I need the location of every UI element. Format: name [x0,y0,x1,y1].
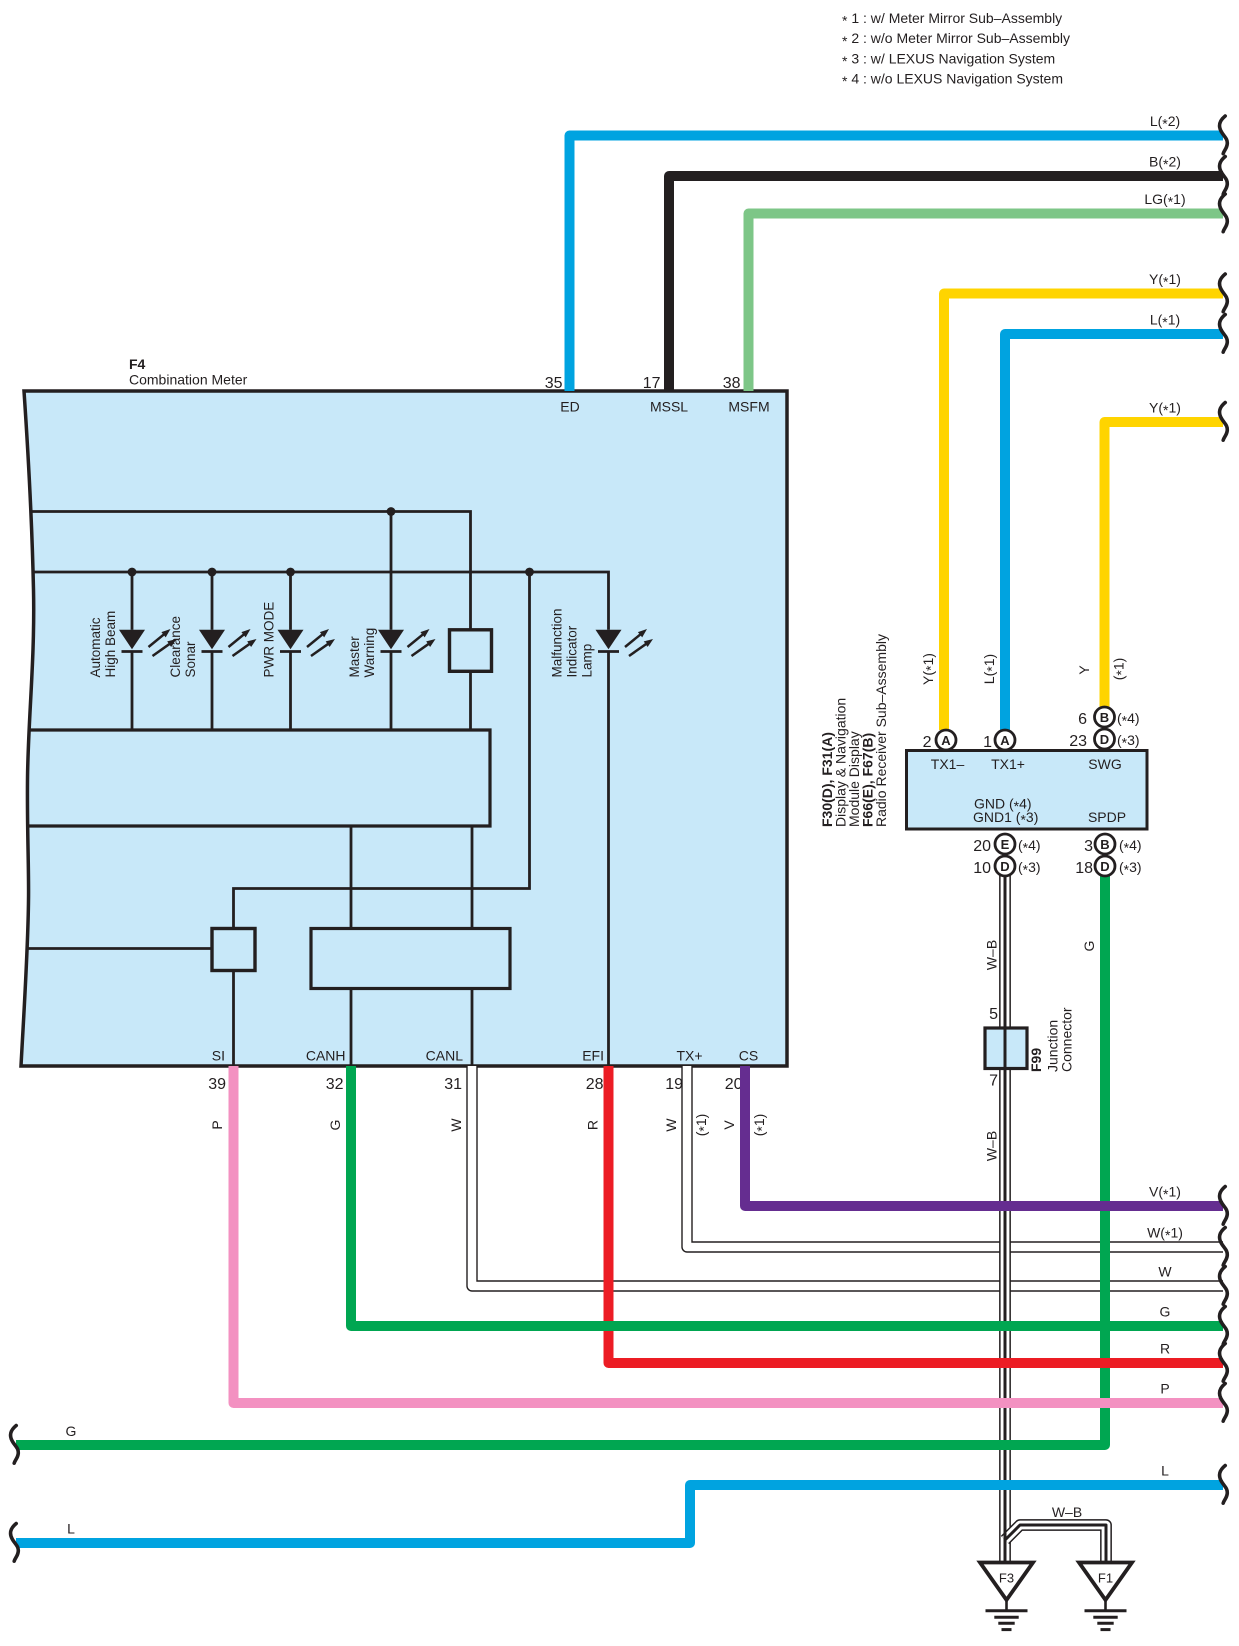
svg-text:W: W [663,1118,679,1132]
svg-text:* 2 : w/o Meter Mirror Sub–Ass: * 2 : w/o Meter Mirror Sub–Assembly [842,30,1070,49]
svg-text:(*3): (*3) [1018,859,1041,878]
svg-text:(*3): (*3) [1119,859,1142,878]
svg-text:* 3 : w/ LEXUS Navigation Syst: * 3 : w/ LEXUS Navigation System [842,50,1055,69]
svg-text:Y(*1): Y(*1) [1149,271,1181,290]
svg-text:TX+: TX+ [676,1048,702,1064]
svg-text:38: 38 [723,375,741,392]
svg-text:Indicator: Indicator [565,625,580,677]
svg-text:3: 3 [1084,838,1093,855]
svg-text:7: 7 [989,1073,998,1090]
svg-text:(*1): (*1) [693,1114,712,1137]
svg-text:Radio Receiver Sub–Assembly: Radio Receiver Sub–Assembly [873,634,889,827]
svg-text:V: V [721,1120,737,1130]
svg-text:CS: CS [739,1048,758,1064]
svg-text:39: 39 [208,1076,226,1093]
svg-text:W: W [1158,1264,1172,1280]
svg-text:Y(*1): Y(*1) [1149,400,1181,419]
svg-text:Sonar: Sonar [183,641,198,678]
svg-text:G: G [1160,1304,1171,1320]
svg-text:32: 32 [326,1076,344,1093]
svg-text:W–B: W–B [984,940,1000,970]
svg-text:(*1): (*1) [1111,658,1130,681]
svg-text:P: P [209,1120,225,1129]
svg-text:(*4): (*4) [1119,837,1142,856]
svg-text:20: 20 [973,838,991,855]
svg-text:B: B [1100,710,1109,725]
svg-text:31: 31 [444,1076,462,1093]
svg-text:CANL: CANL [426,1048,464,1064]
svg-text:TX1+: TX1+ [991,756,1025,772]
svg-text:L(*1): L(*1) [981,654,1000,684]
svg-text:MSFM: MSFM [728,399,769,415]
svg-text:L(*2): L(*2) [1150,113,1180,132]
svg-text:Malfunction: Malfunction [550,608,565,677]
svg-text:* 1 : w/ Meter Mirror Sub–Asse: * 1 : w/ Meter Mirror Sub–Assembly [842,10,1062,29]
svg-text:(*4): (*4) [1117,710,1140,729]
svg-text:18: 18 [1075,860,1093,877]
svg-text:TX1–: TX1– [931,756,965,772]
svg-text:GND1 (*3): GND1 (*3) [973,809,1038,828]
svg-text:G: G [1081,941,1097,952]
svg-text:5: 5 [989,1006,998,1023]
svg-text:W(*1): W(*1) [1147,1225,1183,1244]
svg-text:(*4): (*4) [1018,837,1041,856]
svg-text:LG(*1): LG(*1) [1144,191,1185,210]
svg-text:Master: Master [347,636,362,678]
svg-text:10: 10 [973,860,991,877]
svg-text:Y(*1): Y(*1) [920,653,939,685]
svg-text:D: D [1100,732,1109,747]
svg-text:EFI: EFI [582,1048,604,1064]
svg-text:B(*2): B(*2) [1149,154,1181,173]
svg-text:1: 1 [983,734,992,751]
svg-text:D: D [1000,859,1009,874]
svg-text:W–B: W–B [1052,1504,1082,1520]
svg-text:L: L [1161,1463,1169,1479]
svg-text:17: 17 [643,375,661,392]
svg-text:MSSL: MSSL [650,399,688,415]
svg-text:Warning: Warning [362,628,377,678]
svg-text:CANH: CANH [306,1048,346,1064]
svg-text:ED: ED [560,399,579,415]
svg-text:F3: F3 [999,1571,1014,1586]
svg-text:P: P [1160,1381,1169,1397]
svg-text:Y: Y [1076,665,1092,675]
svg-text:2: 2 [923,734,932,751]
svg-text:SWG: SWG [1088,756,1121,772]
svg-text:Lamp: Lamp [580,644,595,678]
svg-text:W: W [448,1118,464,1132]
svg-text:20: 20 [725,1076,743,1093]
svg-text:L: L [67,1521,75,1537]
svg-text:F4: F4 [129,356,146,372]
svg-text:A: A [1000,733,1010,748]
svg-text:SI: SI [212,1048,225,1064]
svg-text:28: 28 [586,1076,604,1093]
svg-text:D: D [1100,859,1109,874]
svg-text:23: 23 [1069,733,1087,750]
svg-text:(*1): (*1) [751,1114,770,1137]
svg-text:PWR MODE: PWR MODE [262,602,277,678]
svg-text:R: R [585,1120,601,1130]
svg-text:SPDP: SPDP [1088,809,1126,825]
svg-text:G: G [327,1120,343,1131]
svg-text:6: 6 [1078,711,1087,728]
svg-text:Automatic: Automatic [88,617,103,677]
svg-text:(*3): (*3) [1117,732,1140,751]
svg-text:High Beam: High Beam [103,611,118,678]
svg-text:V(*1): V(*1) [1149,1184,1181,1203]
svg-text:A: A [941,733,951,748]
svg-text:R: R [1160,1341,1170,1357]
svg-text:B: B [1100,837,1109,852]
svg-text:Combination Meter: Combination Meter [129,372,248,388]
svg-text:W–B: W–B [984,1131,1000,1161]
svg-text:19: 19 [665,1076,683,1093]
svg-text:G: G [66,1423,77,1439]
svg-text:F99: F99 [1028,1048,1044,1072]
svg-text:35: 35 [545,375,563,392]
svg-text:* 4 : w/o LEXUS Navigation Sys: * 4 : w/o LEXUS Navigation System [842,71,1063,90]
svg-text:L(*1): L(*1) [1150,312,1180,331]
svg-text:E: E [1001,837,1010,852]
svg-text:Clearance: Clearance [168,616,183,678]
svg-text:Connector: Connector [1059,1007,1075,1072]
svg-text:F1: F1 [1098,1571,1113,1586]
